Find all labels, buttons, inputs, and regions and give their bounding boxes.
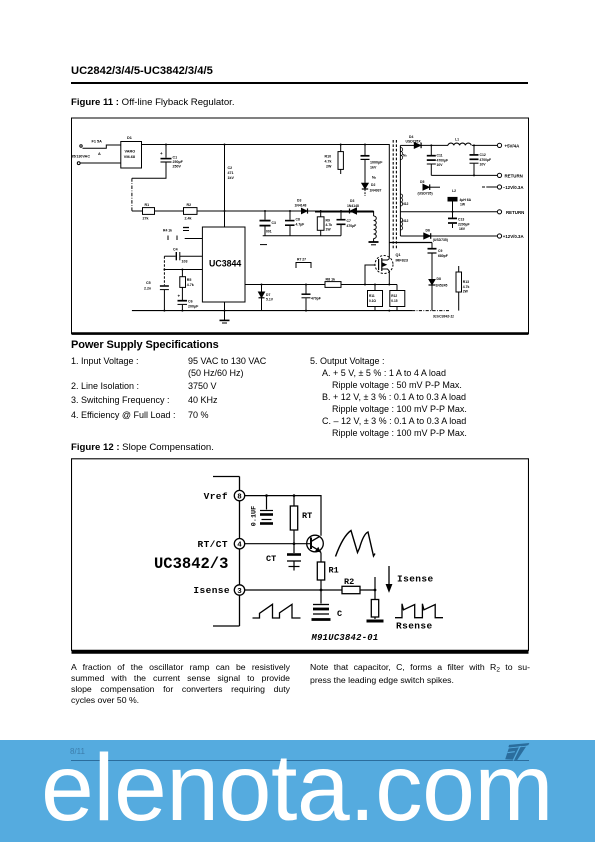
svg-text:+: + — [178, 294, 181, 299]
capacitor C6 — [178, 287, 200, 310]
svg-text:R5: R5 — [187, 278, 192, 282]
svg-text:+: + — [160, 151, 163, 156]
svg-text:D3: D3 — [297, 199, 301, 203]
svg-text:C9: C9 — [438, 249, 442, 253]
waveform sawtooth left — [253, 604, 301, 618]
svg-text:D3: D3 — [350, 199, 354, 203]
wire Vref pin — [164, 269, 202, 271]
svg-text:UC3844: UC3844 — [209, 259, 241, 269]
wire aux bottom — [260, 236, 341, 245]
wire Vref rail — [245, 496, 321, 536]
node Isense junctions — [320, 589, 377, 592]
node +5V terminal — [497, 143, 520, 148]
transistor Q2 — [307, 535, 324, 557]
svg-text:L1: L1 — [455, 138, 459, 142]
pin 4 — [197, 539, 244, 550]
figure 11 caption — [71, 97, 235, 108]
resistor R1 — [143, 203, 155, 221]
svg-text:A: A — [98, 152, 101, 156]
capacitor C8 — [285, 211, 304, 236]
pin 3 — [193, 585, 244, 596]
svg-text:1W: 1W — [326, 228, 332, 232]
resistor R5 — [180, 270, 194, 288]
wire dash-dot to lower rail — [131, 178, 133, 211]
svg-text:1N5245: 1N5245 — [436, 284, 448, 288]
resistor R10 — [325, 145, 344, 175]
transformer T1 core — [393, 140, 396, 250]
svg-text:4700µF: 4700µF — [480, 158, 492, 162]
wire source lead — [389, 271, 397, 285]
svg-text:2W: 2W — [463, 290, 469, 294]
svg-text:C2: C2 — [228, 166, 233, 170]
svg-text:4.7k: 4.7k — [326, 223, 333, 227]
capacitor C10 — [361, 145, 384, 184]
svg-text:D7: D7 — [266, 293, 270, 297]
svg-text:27k: 27k — [143, 217, 149, 221]
wire return rail 1 — [431, 174, 497, 176]
node RT/CT junction — [293, 542, 296, 545]
header title — [71, 65, 213, 77]
diode D8 zener — [429, 277, 448, 311]
node return2 junction — [452, 211, 454, 213]
wire snubber drain — [389, 242, 432, 244]
svg-text:R9: R9 — [326, 219, 330, 223]
resistor R12 — [390, 285, 405, 311]
resistor R13 — [456, 266, 470, 311]
capacitor C16 — [302, 285, 321, 311]
bridge rectifier D1 — [121, 136, 142, 168]
svg-text:D2: D2 — [371, 183, 375, 187]
node -12V terminal — [497, 185, 524, 190]
svg-text:680pF: 680pF — [438, 254, 448, 258]
svg-text:R7 27: R7 27 — [297, 258, 306, 262]
svg-text:C13: C13 — [458, 218, 464, 222]
svg-text:Isense: Isense — [193, 585, 230, 596]
svg-text:RETURN: RETURN — [506, 210, 524, 215]
svg-text:250V: 250V — [173, 165, 182, 169]
figure 12 caption — [71, 442, 214, 453]
svg-text:C6: C6 — [188, 300, 193, 304]
spec items right column — [310, 355, 550, 439]
svg-text:0.15: 0.15 — [391, 299, 397, 303]
svg-text:4.7k: 4.7k — [325, 160, 332, 164]
svg-text:+5V/4A: +5V/4A — [505, 144, 521, 149]
svg-text:D6: D6 — [426, 229, 430, 233]
node gate junction — [261, 284, 391, 286]
op-amp U2 UC3842/3 outline — [154, 477, 240, 627]
capacitor CT — [266, 544, 301, 571]
resistor R1 — [317, 558, 338, 591]
svg-text:1kV: 1kV — [228, 176, 235, 180]
capacitor C12 — [470, 145, 492, 175]
svg-text:D1: D1 — [127, 136, 132, 140]
svg-text:D4: D4 — [409, 135, 413, 139]
svg-text:0.1Ω: 0.1Ω — [369, 299, 376, 303]
figure 12 frame — [72, 459, 529, 652]
svg-text:R1: R1 — [145, 203, 150, 207]
capacitor C3 — [260, 211, 276, 236]
svg-text:C11: C11 — [437, 154, 443, 158]
svg-text:8: 8 — [237, 494, 242, 502]
blue watermark banner — [0, 740, 595, 842]
bottom left paragraph — [71, 662, 290, 706]
svg-text:C7: C7 — [347, 219, 351, 223]
resistor R11 — [368, 285, 383, 311]
svg-text:+12V/0.3A: +12V/0.3A — [503, 234, 525, 239]
node N12 labels — [402, 202, 408, 223]
resistor R8 — [325, 278, 341, 288]
resistor Rsense — [371, 577, 378, 619]
svg-text:C4: C4 — [173, 248, 178, 252]
svg-text:10V: 10V — [437, 163, 444, 167]
svg-text:VARO: VARO — [125, 150, 136, 154]
fuse F1 — [83, 140, 121, 156]
svg-text:103: 103 — [182, 260, 188, 264]
diode D4 — [400, 135, 448, 148]
node +12V terminal — [497, 234, 524, 239]
svg-text:10V: 10V — [480, 163, 487, 167]
svg-text:C1: C1 — [173, 156, 178, 160]
waveform humps — [336, 531, 376, 557]
wire aux ground drop — [374, 211, 377, 242]
svg-text:UC3842/3: UC3842/3 — [154, 555, 228, 573]
svg-text:R11: R11 — [369, 294, 375, 298]
capacitor C — [312, 590, 343, 620]
svg-text:250µF: 250µF — [173, 160, 184, 164]
node return junction — [473, 174, 475, 176]
svg-text:R13: R13 — [463, 280, 469, 284]
svg-text:M91UC3842-01: M91UC3842-01 — [311, 633, 379, 643]
svg-text:C8: C8 — [296, 218, 300, 222]
svg-text:4700µF: 4700µF — [437, 158, 449, 162]
svg-text:USD735X: USD735X — [406, 140, 422, 144]
svg-text:C: C — [337, 609, 342, 619]
diode D6 — [424, 229, 498, 242]
svg-text:470pF: 470pF — [311, 297, 321, 301]
svg-text:4.7k: 4.7k — [463, 285, 470, 289]
svg-text:N12: N12 — [402, 219, 408, 223]
svg-text:2.4k: 2.4k — [185, 217, 192, 221]
capacitor C11 — [427, 145, 448, 175]
capacitor 0.1UF — [251, 496, 274, 527]
capacitor C5 — [144, 256, 169, 310]
svg-text:471: 471 — [228, 171, 234, 175]
wire RT/CT rail — [245, 543, 311, 545]
node figure code — [311, 633, 379, 643]
wire lower rail — [132, 211, 374, 212]
svg-text:001: 001 — [266, 230, 272, 234]
svg-text:470µF: 470µF — [347, 224, 357, 228]
ground aux — [369, 242, 379, 245]
svg-text:C3: C3 — [272, 221, 276, 225]
svg-text:4: 4 — [237, 542, 242, 550]
wire AC neutral — [80, 162, 121, 164]
svg-text:F1 5A: F1 5A — [92, 140, 103, 144]
svg-text:(USD735): (USD735) — [418, 192, 433, 196]
ground Rsense — [367, 620, 384, 623]
svg-text:2.2n: 2.2n — [144, 287, 151, 291]
node figure code — [433, 315, 454, 319]
svg-text:IRF823: IRF823 — [396, 259, 408, 263]
svg-text:16V: 16V — [459, 227, 466, 231]
svg-text:R4 1k: R4 1k — [163, 229, 172, 233]
wire secondary line — [400, 145, 402, 236]
svg-text:D5: D5 — [420, 180, 424, 184]
bottom right paragraph — [310, 662, 530, 687]
capacitor C7 — [337, 211, 357, 236]
svg-text:1W: 1W — [460, 202, 466, 206]
ground IC pin — [220, 302, 230, 323]
figure 11 frame — [72, 118, 529, 334]
resistor RT — [290, 496, 312, 544]
AC input terminals — [71, 145, 90, 165]
svg-text:R10: R10 — [325, 155, 332, 159]
figure 12 schematic — [71, 458, 529, 655]
svg-text:R1: R1 — [329, 566, 339, 576]
svg-text:3: 3 — [237, 588, 242, 596]
capacitor C1 — [132, 145, 184, 179]
spec items left column — [71, 355, 311, 422]
diode D3 — [347, 199, 359, 214]
diode D2 — [362, 183, 382, 196]
node Rsense label — [396, 621, 433, 632]
resistor R2 — [342, 577, 360, 594]
wire gate tap — [365, 265, 375, 285]
svg-text:R2: R2 — [187, 203, 192, 207]
wire VCC drop C2 — [225, 145, 235, 228]
svg-text:0.1UF: 0.1UF — [251, 506, 259, 526]
node Vref junctions — [265, 494, 295, 497]
node RETURN terminal 1 — [497, 173, 522, 178]
diode D7 — [259, 285, 274, 311]
svg-text:95/130VAC: 95/130VAC — [71, 155, 90, 159]
svg-text:4µH 6A: 4µH 6A — [460, 198, 472, 202]
Power Supply Specifications heading — [71, 339, 219, 351]
svg-text:4.7k: 4.7k — [187, 283, 194, 287]
node top rail junctions — [165, 144, 366, 146]
svg-text:Nₚ: Nₚ — [372, 176, 377, 180]
svg-text:D8: D8 — [437, 277, 441, 281]
node lower rail junctions — [224, 210, 343, 212]
svg-text:91UC3842-11: 91UC3842-11 — [433, 315, 454, 319]
inductor L1 — [448, 138, 497, 146]
svg-text:Q1: Q1 — [396, 253, 401, 257]
diode D5 — [418, 180, 441, 196]
wire ground rail — [132, 310, 449, 312]
op-amp U1 UC3844 — [202, 227, 245, 302]
wire Isense rail — [245, 589, 375, 591]
wire top rail — [142, 145, 390, 259]
node Ns label — [403, 154, 407, 158]
svg-text:1N4148: 1N4148 — [347, 204, 359, 208]
svg-text:L2: L2 — [452, 189, 456, 193]
svg-text:2W: 2W — [326, 165, 332, 169]
svg-text:200µF: 200µF — [188, 305, 199, 309]
node RETURN terminal 2 — [497, 210, 524, 215]
svg-text:C5: C5 — [146, 281, 151, 285]
node Np label — [372, 176, 377, 180]
svg-text:R8 1k: R8 1k — [326, 278, 336, 282]
diode D9 — [295, 199, 308, 214]
svg-text:1000pF: 1000pF — [370, 161, 383, 165]
node ground junctions — [163, 310, 390, 312]
svg-text:CT: CT — [266, 554, 276, 564]
resistor R7 — [296, 258, 311, 269]
svg-text:1kV: 1kV — [370, 166, 377, 170]
svg-text:–12V/0.3A: –12V/0.3A — [503, 185, 525, 190]
header rule — [71, 82, 528, 84]
svg-text:Rsense: Rsense — [396, 621, 433, 632]
figure 11 schematic — [71, 117, 529, 335]
wire -12V stub — [482, 186, 497, 188]
svg-text:VM-68: VM-68 — [124, 155, 135, 159]
resistor R4 network — [163, 228, 202, 241]
node Vref junction — [163, 269, 183, 271]
wire gate drive — [245, 284, 389, 286]
svg-text:5.1V: 5.1V — [266, 298, 274, 302]
svg-text:1N4148: 1N4148 — [295, 203, 307, 207]
svg-text:RT: RT — [302, 511, 312, 521]
node top rail junction C12 — [430, 144, 475, 146]
inductor L2 — [448, 189, 472, 212]
svg-text:2200µF: 2200µF — [458, 222, 470, 226]
svg-text:C12: C12 — [480, 153, 486, 157]
svg-text:RETURN: RETURN — [505, 174, 523, 179]
svg-text:RT/CT: RT/CT — [197, 539, 228, 550]
resistor R9 — [317, 211, 332, 236]
transistor Q1 — [375, 253, 408, 274]
resistor R2 — [184, 203, 198, 221]
svg-text:(USD735): (USD735) — [433, 238, 448, 242]
wire return rail 2 — [400, 211, 497, 213]
svg-text:Vref: Vref — [204, 491, 228, 502]
svg-text:N12: N12 — [402, 202, 408, 206]
capacitor C9 — [428, 243, 448, 280]
page number 8/11 — [70, 747, 85, 756]
svg-text:R2: R2 — [344, 577, 354, 587]
svg-text:Isense: Isense — [397, 574, 434, 585]
node source junction — [374, 284, 376, 286]
capacitor C13 — [448, 212, 470, 231]
wire +12V rail — [400, 235, 423, 237]
waveform sawtooth right — [395, 604, 443, 618]
ST logo — [503, 743, 530, 761]
svg-text:Nₛ: Nₛ — [403, 154, 407, 158]
capacitor C4 — [164, 248, 202, 264]
footer rule — [71, 760, 529, 761]
elenota watermark text — [41, 741, 553, 836]
svg-text:1N4937: 1N4937 — [370, 189, 382, 193]
pin 8 — [204, 490, 245, 501]
svg-text:4.7µF: 4.7µF — [296, 223, 305, 227]
svg-text:R12: R12 — [391, 294, 397, 298]
node Isense arrow — [386, 566, 433, 592]
